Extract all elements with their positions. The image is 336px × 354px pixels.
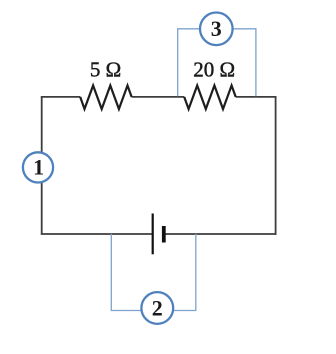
resistor R2 zigzag — [184, 86, 236, 110]
wire: bottom side right segment — [164, 233, 277, 235]
wire: left vertical side of loop — [41, 97, 43, 234]
meter M3 circle — [200, 13, 233, 46]
wire: blue lead left of meter 3 — [178, 29, 200, 97]
svg-text:1: 1 — [33, 155, 44, 180]
wire: blue lead right of meter 2 — [173, 234, 196, 311]
wire: top side right segment — [236, 96, 277, 98]
resistor R1 zigzag — [80, 86, 131, 110]
svg-text:3: 3 — [211, 16, 222, 41]
battery B1 short thick negative plate — [162, 226, 166, 243]
svg-text:20 Ω: 20 Ω — [193, 58, 235, 82]
svg-text:5 Ω: 5 Ω — [90, 58, 121, 82]
wire: bottom side left segment — [41, 233, 153, 235]
wire: top side left segment — [41, 96, 80, 98]
wire: right vertical side of loop — [275, 96, 277, 235]
meter M2 circle — [141, 292, 173, 324]
svg-text:2: 2 — [152, 295, 163, 320]
wire: blue lead left of meter 2 — [111, 234, 141, 311]
wire: blue lead right of meter 3 — [233, 29, 256, 97]
wire: top side middle segment between resistors — [132, 96, 185, 98]
meter M1 circle — [23, 152, 53, 182]
battery B1 long positive plate — [152, 214, 154, 255]
